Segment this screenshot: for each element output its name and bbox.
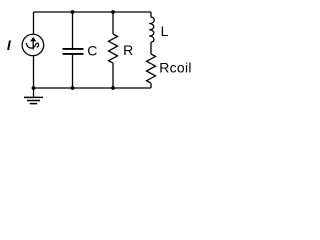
node dot bottom C (71, 86, 75, 90)
wire capacitor top lead (72, 12, 74, 48)
node dot top C (71, 10, 75, 14)
svg-text:C: C (87, 43, 97, 59)
current source I1 (22, 34, 44, 56)
wire resistor top lead (112, 12, 114, 34)
wire top bus (34, 11, 152, 13)
wire source bottom lead (33, 56, 35, 88)
wire bottom bus (34, 87, 152, 89)
wire between L and Rcoil (150, 42, 152, 54)
resistor Rcoil (147, 54, 156, 83)
ground (24, 88, 43, 104)
inductor L (149, 17, 154, 42)
svg-text:Rcoil: Rcoil (159, 59, 192, 75)
svg-text:R: R (123, 42, 133, 58)
svg-text:L: L (161, 23, 169, 39)
resistor R (109, 34, 118, 63)
wire source top lead (33, 12, 35, 34)
node dot top R (111, 10, 115, 14)
node dot ground junction (32, 86, 36, 90)
wire inductor top lead (150, 12, 152, 17)
wire Rcoil bottom lead (150, 83, 152, 88)
node dot bottom R (111, 86, 115, 90)
capacitor C (63, 49, 84, 54)
wire resistor bottom lead (112, 63, 114, 88)
wire capacitor bottom lead (72, 55, 74, 88)
